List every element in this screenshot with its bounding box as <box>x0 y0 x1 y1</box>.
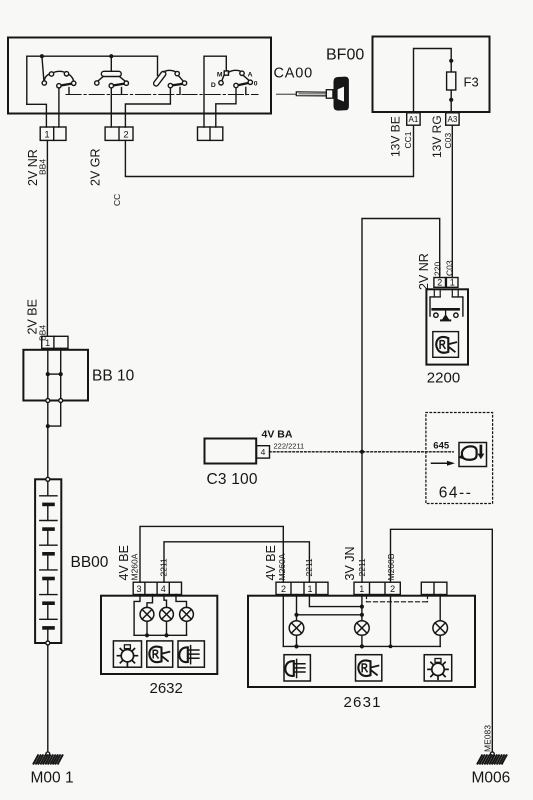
wire 2200 pin2 to 2631 pin1 (2V NR Z20 / 2211) <box>362 219 440 583</box>
switch S2 wiper bar <box>113 84 124 86</box>
switch S3 mechanical tick <box>179 88 181 95</box>
svg-text:M00 1: M00 1 <box>31 770 74 787</box>
svg-text:2: 2 <box>281 584 286 594</box>
icon frame headlamp projector <box>356 655 382 681</box>
wire BB00 to ground M001 <box>47 645 49 752</box>
svg-text:645: 645 <box>433 441 450 452</box>
component box BF00 <box>373 37 490 113</box>
wire S4 feed loop <box>204 56 226 127</box>
svg-text:C3 100: C3 100 <box>207 471 258 488</box>
switch S4 mechanical tick <box>245 87 247 94</box>
connector pin 1 of CA00 <box>40 127 66 140</box>
wire group3 pin to lamp L3 <box>439 595 441 621</box>
icon frame headlamp projector <box>147 641 173 667</box>
icon horn shape <box>462 446 477 459</box>
wire S3 wiper output to pin 2 <box>125 88 170 127</box>
terminal circle bottom <box>46 641 50 645</box>
svg-text:BF00: BF00 <box>326 47 364 64</box>
wire BB10 crossbar <box>48 373 61 375</box>
wire 2211 loop 2632 pin4 to 2631 pin1 <box>164 542 309 582</box>
node dot lamp L1 feed <box>294 613 298 617</box>
switch S3 lever pill <box>153 70 167 87</box>
lamp L2 of 2632 <box>160 607 174 621</box>
component box 2631 <box>248 596 475 687</box>
connector pin 1 of BB10 <box>42 336 68 348</box>
svg-text:13V BE: 13V BE <box>389 116 403 157</box>
key shaft <box>296 92 326 96</box>
switch S4 contact circles <box>219 71 253 88</box>
wire BB10 internal left <box>47 348 49 398</box>
wire bus to pin 1 <box>27 104 47 127</box>
svg-text:3: 3 <box>136 584 141 594</box>
svg-text:D: D <box>211 82 216 89</box>
svg-text:2211: 2211 <box>159 558 169 577</box>
switch S1 mechanical tick <box>68 88 70 95</box>
icon fog lamp <box>285 659 305 677</box>
svg-text:M: M <box>217 71 223 78</box>
wire lamp bottoms to bus <box>297 635 441 646</box>
connector pin A1 <box>407 113 420 125</box>
switch S4 wiper bar <box>238 83 248 85</box>
connector group 3 of 2631 (unlabelled) <box>421 582 447 594</box>
switch S2 side legs <box>98 77 103 82</box>
wire bus drop to S3 <box>157 56 159 75</box>
svg-text:4V BE: 4V BE <box>264 545 278 580</box>
svg-text:1: 1 <box>359 584 364 594</box>
switch S2 mechanical tick <box>121 88 123 95</box>
wire M260B pin2 over to ground M006 <box>391 529 493 752</box>
switch S3 arc <box>164 70 177 72</box>
node merge dot <box>46 424 50 428</box>
icon bulb with rays <box>428 659 448 680</box>
wire return bus 2632 <box>134 634 186 636</box>
node bus dot L2 <box>164 633 168 637</box>
svg-text:M260A: M260A <box>277 553 287 580</box>
switch S1 wiper bar <box>61 84 73 86</box>
connector group 1 of 2631 (pins 2,1) <box>276 582 328 594</box>
wire M260A loop 2632 pin3 to 2631 pin2 <box>140 526 283 582</box>
svg-text:BB4: BB4 <box>38 159 48 175</box>
connector pin 4 <box>257 446 270 458</box>
svg-text:C03: C03 <box>443 133 453 149</box>
icon projector lamp <box>358 660 370 676</box>
connector pin 3 of CA00 (unlabelled) <box>198 127 223 140</box>
svg-text:1: 1 <box>45 338 50 348</box>
svg-text:ME083: ME083 <box>483 725 493 752</box>
node dot L2 feed upper <box>360 605 364 609</box>
icon frame fog lamp <box>284 655 310 681</box>
switch S4 leg M to D <box>222 75 224 81</box>
svg-text:2200: 2200 <box>427 370 460 387</box>
horn switch bracket <box>430 297 463 316</box>
node junction dot with C3100 dotted wire <box>360 450 364 454</box>
horn icon letter <box>440 341 445 349</box>
wire pin4 to lamp L2 <box>164 595 167 608</box>
switch S2 contact circles <box>95 81 129 88</box>
wire dashed internal link <box>367 595 428 602</box>
svg-text:A1: A1 <box>409 115 419 124</box>
svg-text:2V GR: 2V GR <box>89 148 103 186</box>
wire pin3 to return bus <box>134 595 140 636</box>
wire fuse to A3 <box>450 90 452 112</box>
mechanical coupling dash-dot line <box>66 94 258 96</box>
terminal circle left <box>46 399 50 403</box>
arrow 645 <box>432 462 449 464</box>
svg-text:CC1: CC1 <box>403 131 413 148</box>
svg-text:2V NR: 2V NR <box>417 253 431 290</box>
wire bus inside CA00 <box>27 56 158 104</box>
wire pin1 group1 to L2 <box>309 595 362 607</box>
connector of 2632 (pins 3,4) <box>133 582 181 594</box>
switch S1 arc <box>44 71 73 81</box>
icon horn spout <box>458 454 464 459</box>
svg-text:M006: M006 <box>472 770 511 787</box>
node bus dot L2 <box>360 644 364 648</box>
node bus dot L1 <box>294 644 298 648</box>
horn icon lamp shape <box>436 337 448 353</box>
component box BB10 <box>23 350 88 401</box>
wire blank pin to lamp L1 <box>296 595 298 621</box>
lamp L1 of 2632 <box>140 607 154 621</box>
wire internal A1 to fuse <box>414 49 452 113</box>
icon frame fog lamp <box>178 641 204 667</box>
component box BB00 <box>35 479 61 643</box>
svg-text:1: 1 <box>44 130 49 141</box>
node dot L2 feed lower <box>360 613 364 617</box>
switch S4 leg A to 0 <box>243 75 249 80</box>
wire S4 wiper output <box>216 88 236 127</box>
svg-text:CA00: CA00 <box>274 66 313 82</box>
horn switch pusher <box>445 311 447 315</box>
svg-text:CC: CC <box>112 194 122 206</box>
wire M260B pin2 to return bus <box>390 595 392 647</box>
horn icon frame <box>433 332 459 358</box>
connector pin 2 of CA00 <box>105 127 133 140</box>
svg-text:1: 1 <box>450 277 455 287</box>
icon frame horn <box>459 443 487 467</box>
wire S1 wiper output <box>58 88 60 127</box>
ground M006 hatched symbol <box>478 755 507 763</box>
lamp L1 of 2631 <box>289 621 304 636</box>
switch S2 pill contact <box>101 71 121 76</box>
svg-text:2211: 2211 <box>304 558 314 577</box>
switch S4 fixed contact M (square) <box>224 71 228 75</box>
wire blank pin to lamp L1 <box>147 595 153 608</box>
svg-text:4: 4 <box>261 447 266 457</box>
svg-text:M260B: M260B <box>386 553 396 580</box>
wire dotted C3100 to 64-- <box>270 451 454 453</box>
svg-text:4V BA: 4V BA <box>262 429 293 441</box>
wire merge below BB10 <box>48 403 61 478</box>
connector group 2 of 2631 (pins 1,2) <box>354 582 400 594</box>
svg-text:2: 2 <box>123 130 128 141</box>
wire pin2 to return bus <box>282 595 284 647</box>
key collar <box>326 90 333 99</box>
horn switch thick bar <box>433 308 459 311</box>
switch S3 right leg <box>178 75 183 81</box>
component box 2200 <box>426 289 468 364</box>
svg-text:2: 2 <box>390 584 395 594</box>
svg-text:220: 220 <box>433 262 443 276</box>
connector pin A3 <box>446 113 459 125</box>
switch S3 contact circles <box>168 71 187 87</box>
svg-text:64--: 64-- <box>439 484 473 501</box>
key head hole (white) <box>338 87 344 102</box>
svg-text:2632: 2632 <box>150 680 183 697</box>
connector pin 1 of 2200 <box>446 278 458 288</box>
horn icon beams <box>450 342 457 351</box>
terminal circle right <box>59 399 63 403</box>
component box CA00 <box>8 38 271 114</box>
terminal circle top <box>46 477 50 481</box>
svg-text:A3: A3 <box>448 115 458 124</box>
wire S2 wiper output <box>110 88 112 127</box>
svg-text:4: 4 <box>161 584 166 594</box>
wire return bus 2631 <box>283 645 440 647</box>
dashed box 64-- <box>426 413 493 504</box>
svg-text:1: 1 <box>307 584 312 594</box>
ground M001 hatched symbol <box>34 755 63 763</box>
node fuse top dot <box>449 59 453 63</box>
node bus junction dot S1 <box>40 54 44 58</box>
svg-text:M260A: M260A <box>130 553 140 580</box>
svg-text:BB00: BB00 <box>71 554 109 571</box>
node bus junction dot S2 <box>109 54 113 58</box>
icon bulb with rays <box>117 645 137 666</box>
svg-text:2211: 2211 <box>357 558 367 577</box>
lamp L3 of 2632 <box>180 607 194 621</box>
svg-text:0: 0 <box>254 80 258 87</box>
node dot right <box>59 372 63 376</box>
wire BF00 A3 to 2200 pin1 (13V RG C03) <box>451 125 453 277</box>
svg-text:222/2211: 222/2211 <box>274 442 305 451</box>
wire lamp bottoms to bus <box>147 621 187 635</box>
svg-text:C03: C03 <box>445 260 455 276</box>
svg-text:F3: F3 <box>464 75 479 90</box>
switch S1 feed stub <box>42 56 44 81</box>
component box C3100 <box>205 439 257 464</box>
switch S1 contact circles <box>42 72 76 88</box>
fuse F3 body <box>447 72 456 90</box>
svg-text:BB 10: BB 10 <box>92 368 135 385</box>
svg-text:2631: 2631 <box>344 694 382 711</box>
wire link L1 to L2 <box>297 614 362 616</box>
icon frame position lamp <box>424 655 452 681</box>
switch S4 arc M to A <box>229 70 242 72</box>
dash-dot line extension to key <box>277 93 297 95</box>
node dot left <box>46 372 50 376</box>
battery cells <box>40 481 57 641</box>
key head (black bow) <box>334 77 349 111</box>
lamp L2 of 2631 <box>355 621 370 636</box>
node bus dot riser <box>389 645 393 649</box>
wire blank pin to lamp L3 <box>176 595 187 608</box>
svg-text:2: 2 <box>437 277 442 287</box>
wire CA00 pin1 to BB10 (2V NR BB4) <box>46 140 48 336</box>
connector pin 2 of 2200 <box>434 278 446 288</box>
wire BB10 internal right <box>60 348 62 398</box>
node bus dot L1 <box>145 633 149 637</box>
horn switch contact circles <box>434 313 458 317</box>
pin tails inside 2200 <box>434 289 458 297</box>
switch S2 feed stub <box>110 56 112 71</box>
node fuse bottom dot <box>449 98 453 102</box>
svg-text:3V JN: 3V JN <box>343 546 357 580</box>
component box 2632 <box>101 596 217 674</box>
lamp L3 of 2631 <box>433 621 448 636</box>
icon projector lamp <box>149 647 161 663</box>
icon down arrow <box>480 446 483 454</box>
svg-text:A: A <box>248 72 253 79</box>
wire pin1 group2 to lamp L2 <box>361 595 363 621</box>
switch S3 wiper bar <box>173 84 183 86</box>
ground M001 terminal circle <box>46 752 50 756</box>
wire CA00 pin2 to BF00 A1 (2V GR CC) <box>125 125 413 176</box>
ground M006 terminal circle <box>490 752 494 756</box>
icon fog lamp <box>179 646 199 664</box>
icon frame position lamp <box>113 641 141 667</box>
